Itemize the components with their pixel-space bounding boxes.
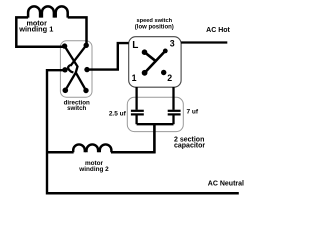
svg-text:1: 1 (132, 73, 137, 83)
svg-text:AC Hot: AC Hot (206, 27, 230, 34)
svg-text:(low position): (low position) (135, 24, 174, 30)
svg-text:7 uf: 7 uf (187, 108, 199, 115)
svg-text:2: 2 (167, 73, 172, 83)
svg-text:winding 1: winding 1 (18, 25, 53, 34)
svg-text:2.5 uf: 2.5 uf (109, 111, 127, 118)
svg-text:capacitor: capacitor (174, 143, 205, 150)
svg-text:switch: switch (67, 105, 86, 112)
svg-text:AC Neutral: AC Neutral (208, 180, 244, 187)
svg-text:winding 2: winding 2 (78, 166, 109, 173)
svg-text:speed switch: speed switch (136, 18, 172, 24)
svg-text:L: L (132, 40, 138, 51)
svg-text:3: 3 (170, 39, 175, 49)
